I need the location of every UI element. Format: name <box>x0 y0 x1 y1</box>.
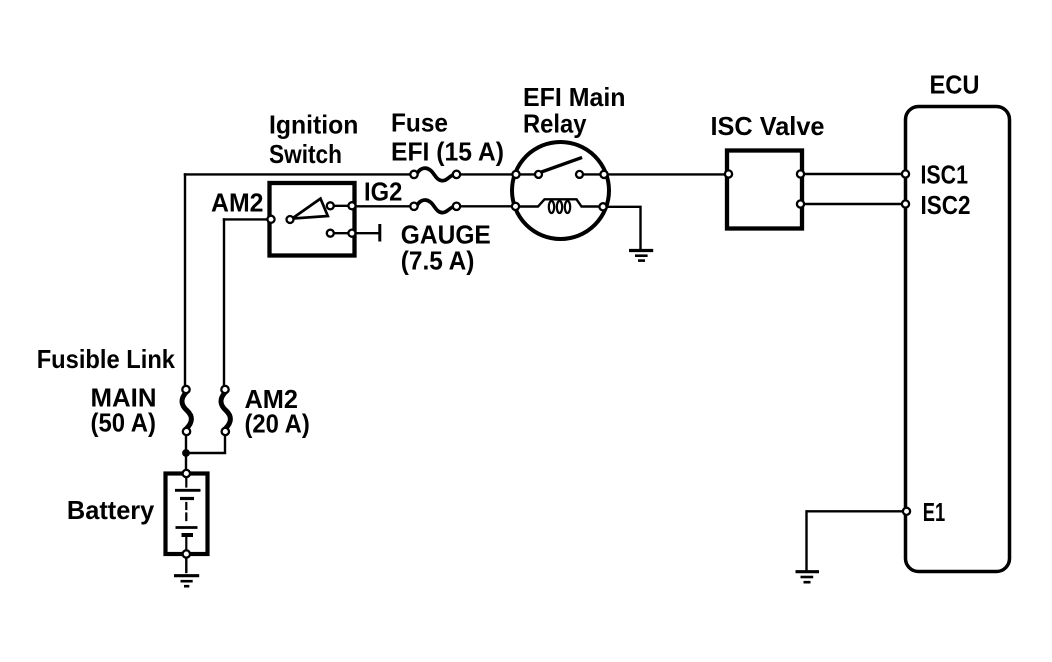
relay coil <box>519 199 600 206</box>
svg-text:EFI (15 A): EFI (15 A) <box>391 137 504 167</box>
node: relay contact left <box>535 171 542 178</box>
node: MAIN link top terminal <box>182 386 189 393</box>
wire: AM2 vertical down to fusible link <box>223 219 225 390</box>
node: AM2 link bottom terminal <box>222 428 229 435</box>
wire: left vertical (battery + to top wire) <box>184 174 186 390</box>
node: GAUGE fuse left terminal <box>410 203 417 210</box>
svg-text:ECU: ECU <box>930 70 980 100</box>
node: ECU ISC1 terminal <box>902 170 909 177</box>
wire: IG2 contact to right terminal <box>332 205 352 207</box>
svg-text:Switch: Switch <box>269 139 342 169</box>
battery internal: top dash <box>185 479 187 487</box>
ground: battery ground <box>174 574 199 577</box>
node: relay boundary bottom-left <box>512 203 519 210</box>
node: switch IG2 contact <box>327 202 334 209</box>
svg-text:(50 A): (50 A) <box>91 408 157 438</box>
svg-text:Relay: Relay <box>523 109 587 139</box>
ground: E1 ground <box>796 570 820 573</box>
node: junction dot above battery <box>182 449 190 457</box>
node: ISC valve right terminal 1 <box>797 170 804 177</box>
svg-text:IG2: IG2 <box>364 176 402 206</box>
EFI main relay body circle <box>512 142 609 239</box>
node: switch pivot <box>287 216 294 223</box>
ignition switch blade (movable contact) <box>292 199 328 219</box>
node: EFI fuse right terminal <box>453 171 460 178</box>
ground: relay coil ground <box>629 249 653 252</box>
battery internal: cell1 short plate <box>180 497 194 500</box>
node: relay boundary top-left <box>512 171 519 178</box>
node: relay boundary bottom-right <box>599 203 606 210</box>
fuse GAUGE (7.5 A) <box>417 200 453 213</box>
node: relay boundary top-right <box>600 171 607 178</box>
node: battery negative terminal <box>183 550 190 557</box>
relay contact wire right <box>583 173 604 175</box>
svg-text:Fuse: Fuse <box>391 108 448 138</box>
node: relay contact right <box>576 171 583 178</box>
battery internal: cell2 long plate <box>176 526 198 529</box>
wire: GAUGE stub with end bar <box>356 232 379 234</box>
wire: GAUGE fuse to relay coil <box>457 205 516 207</box>
wire: AM2 horizontal into ignition switch <box>224 218 270 220</box>
ISC valve box <box>727 151 802 229</box>
ignition switch box <box>270 183 355 256</box>
node: AM2 link top terminal <box>221 386 228 393</box>
node: ignition switch AM2 terminal <box>267 216 274 223</box>
svg-text:(7.5 A): (7.5 A) <box>401 246 475 276</box>
wire: EFI fuse to relay contact <box>457 173 516 175</box>
svg-text:E1: E1 <box>923 497 945 527</box>
node: ECU E1 terminal <box>903 508 910 515</box>
svg-text:AM2: AM2 <box>211 188 264 218</box>
svg-text:EFI Main: EFI Main <box>523 82 626 112</box>
wire: relay coil to ground <box>603 207 641 250</box>
relay switch blade <box>542 158 581 172</box>
ECU box <box>906 107 1010 572</box>
relay contact wire left <box>516 173 535 175</box>
wire: AM2 link down and left to junction <box>186 430 225 453</box>
svg-text:Ignition: Ignition <box>269 110 358 140</box>
node: ISC valve right terminal 2 <box>797 200 804 207</box>
fuse EFI (15 A) <box>417 168 453 181</box>
svg-text:Fusible Link: Fusible Link <box>37 344 176 374</box>
node: ISC valve left terminal <box>725 170 732 177</box>
fusible link MAIN (50 A) squiggle <box>182 393 191 429</box>
wire: MAIN link to battery vertical <box>185 430 187 474</box>
node: ECU ISC2 terminal <box>902 200 909 207</box>
wire: B+ top horizontal from MAIN link to EFI fuse <box>185 173 414 175</box>
wire: ISC valve to ECU ISC1 <box>801 173 906 175</box>
wire: lower contact to right terminal <box>332 232 352 234</box>
battery body <box>166 474 208 555</box>
wire: ISC valve to ECU ISC2 <box>801 203 906 205</box>
svg-text:Battery: Battery <box>67 495 155 525</box>
wire: battery negative to ground <box>185 554 187 572</box>
node: switch IG2 terminal <box>348 202 355 209</box>
node: MAIN link bottom terminal <box>183 428 190 435</box>
node: GAUGE fuse right terminal <box>453 203 460 210</box>
svg-text:(20 A): (20 A) <box>245 409 310 439</box>
fusible link AM2 (20 A) squiggle <box>221 393 230 429</box>
wire: IG2 from ignition switch to GAUGE fuse <box>353 205 414 207</box>
node: switch lower terminal <box>348 230 355 237</box>
node: switch lower contact <box>327 230 334 237</box>
battery internal: bottom tail <box>185 537 187 553</box>
node: EFI fuse left terminal <box>410 171 417 178</box>
node: battery positive terminal <box>183 470 190 477</box>
svg-text:ISC2: ISC2 <box>921 190 971 220</box>
wire: relay contact to ISC valve <box>604 173 728 175</box>
battery internal: cell2 short plate <box>182 533 194 537</box>
battery internal: cell1 long plate <box>175 489 201 492</box>
battery internal: dashed middle link <box>185 503 187 520</box>
wire: ECU E1 to ground <box>807 511 906 569</box>
svg-text:ISC Valve: ISC Valve <box>711 111 825 141</box>
svg-text:ISC1: ISC1 <box>921 159 969 189</box>
